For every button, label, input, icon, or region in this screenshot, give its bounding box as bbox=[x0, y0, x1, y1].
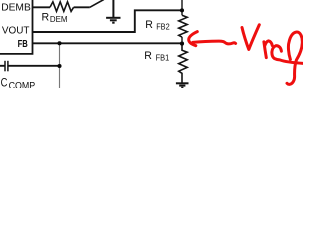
node junction FB/divider bbox=[180, 42, 184, 46]
svg-text:FB2: FB2 bbox=[156, 22, 170, 31]
red text Vref : f bbox=[287, 32, 302, 84]
capacitor C_COMP bbox=[0, 61, 60, 72]
switch arm diagonal bbox=[90, 0, 104, 7]
ground (top) bbox=[106, 0, 120, 23]
svg-text:FB: FB bbox=[18, 39, 28, 50]
node junction FB/comp bbox=[57, 41, 61, 45]
ground (bottom) bbox=[176, 83, 189, 87]
svg-text:C: C bbox=[1, 76, 8, 88]
resistor R_FB1 bbox=[179, 44, 188, 83]
wire comp node vertical bbox=[59, 43, 61, 88]
node junction VOUT/R_FB2 bbox=[180, 8, 184, 12]
red annotation arrow tail bbox=[193, 41, 236, 44]
svg-text:DEMB: DEMB bbox=[1, 1, 31, 13]
svg-text:COMP: COMP bbox=[9, 81, 36, 88]
svg-text:R: R bbox=[145, 19, 153, 31]
red annotation arrow head bbox=[189, 32, 198, 46]
IC box edge bbox=[0, 0, 33, 54]
red text Vref : r bbox=[264, 41, 272, 58]
svg-text:VOUT: VOUT bbox=[2, 26, 30, 37]
wire to switch bbox=[74, 6, 90, 8]
svg-text:R: R bbox=[144, 50, 152, 62]
node junction comp wire bbox=[57, 64, 61, 68]
wire R_FB2 top (to off-image) bbox=[181, 0, 183, 15]
resistor R_FB2 bbox=[179, 15, 188, 37]
svg-text:DEM: DEM bbox=[50, 15, 68, 24]
wire R_FB2 bottom bbox=[181, 37, 183, 44]
red text Vref : V bbox=[242, 25, 259, 50]
red text Vref : e bbox=[272, 46, 304, 64]
svg-text:FB1: FB1 bbox=[156, 54, 170, 63]
wire FB pin bbox=[33, 42, 182, 44]
wire DEMB pin bbox=[33, 6, 50, 8]
svg-text:R: R bbox=[42, 11, 50, 23]
wire VOUT pin bbox=[33, 10, 182, 32]
resistor R_DEM bbox=[50, 2, 74, 12]
